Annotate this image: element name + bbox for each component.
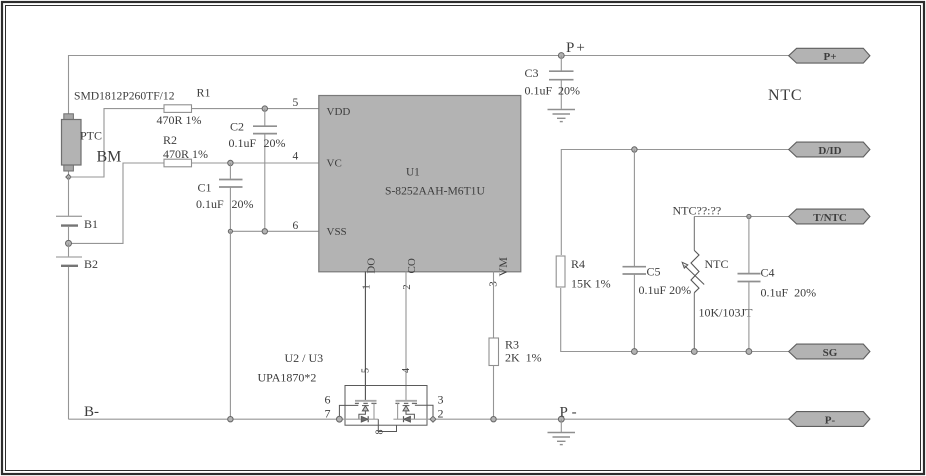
svg-text:1: 1: [361, 284, 373, 290]
svg-text:20%: 20%: [232, 197, 254, 211]
svg-text:P+: P+: [824, 51, 837, 63]
node: junction dot VSS/C1: [228, 229, 232, 233]
svg-text:R3: R3: [505, 338, 519, 352]
ground at C3: [548, 110, 576, 122]
wire: VSS pin 6 to C1/C2 verticals: [230, 230, 319, 232]
IC U1 S-8252AAH-M6T1U: [293, 96, 521, 290]
node: PTC bottom junction diamond: [66, 174, 71, 179]
wire: pin 8 hook below package: [378, 419, 396, 431]
svg-text:P -: P -: [560, 405, 577, 421]
svg-text:6: 6: [293, 220, 299, 232]
svg-text:SG: SG: [823, 347, 838, 359]
wire: VSS down to B- rail: [229, 231, 231, 419]
transistor Q left (U2): [355, 401, 377, 422]
wire: BM sense from B1/B2 node to R2 left: [71, 163, 164, 243]
capacitor C2 0.1uF 20%: [229, 109, 286, 232]
wire: C4 vertical from T/NTC: [748, 217, 750, 274]
svg-text:PTC: PTC: [80, 129, 102, 143]
svg-text:4: 4: [293, 151, 299, 163]
transistor Q right (U3): [395, 401, 417, 422]
node: B1/B2 mid junction diamond: [66, 240, 72, 246]
svg-text:S-8252AAH-M6T1U: S-8252AAH-M6T1U: [385, 184, 485, 197]
wire: pin 6 connection left: [339, 405, 358, 417]
dual MOSFET package U2/U3 box: [345, 386, 427, 426]
svg-text:5: 5: [293, 97, 299, 109]
svg-text:VM: VM: [496, 257, 510, 277]
svg-text:20%: 20%: [558, 83, 580, 97]
connector flag P+: [789, 48, 870, 63]
svg-text:C1: C1: [198, 180, 212, 194]
svg-text:B2: B2: [84, 257, 98, 271]
wire: DO pin to Q1 gate: [364, 272, 366, 402]
wire: B- rail: [69, 418, 340, 420]
capacitor C1 0.1uF 20%: [196, 163, 254, 231]
svg-text:4: 4: [401, 368, 412, 373]
wire: PTC bottom node to R1 left: [71, 109, 165, 177]
svg-text:15K 1%: 15K 1%: [571, 277, 611, 291]
wire: P+ top bus from PTC to P+ flag: [69, 56, 789, 115]
wire: R1 right to U1 VDD pin 5: [192, 108, 320, 110]
svg-text:R1: R1: [197, 86, 211, 100]
svg-text:3: 3: [438, 393, 444, 407]
wire: T/NTC net: [694, 216, 788, 218]
node: junction dot P- ground: [558, 416, 564, 422]
svg-text:NTC??:??: NTC??:??: [673, 204, 722, 218]
svg-text:SMD1812P260TF/12: SMD1812P260TF/12: [74, 89, 175, 102]
ground at P-: [548, 419, 576, 444]
wire: P- rail: [436, 418, 789, 420]
svg-text:0.1uF: 0.1uF: [229, 136, 257, 150]
svg-text:NTC: NTC: [768, 87, 802, 104]
PTC thermistor SMD1812P260TF/12: [62, 89, 175, 177]
svg-text:8: 8: [375, 430, 386, 435]
svg-text:U2 / U3: U2 / U3: [285, 351, 324, 365]
svg-text:7: 7: [325, 407, 331, 421]
svg-text:470R 1%: 470R 1%: [157, 113, 202, 127]
wire: R2 right to U1 VC pin 4: [192, 162, 320, 164]
svg-text:2: 2: [438, 407, 444, 421]
resistor R3 2K 1%: [489, 338, 542, 420]
thermistor NTC 10K/103JT: [682, 250, 753, 351]
svg-text:C4: C4: [761, 266, 775, 280]
node: junction dot VSS/C2: [262, 229, 267, 234]
wire: pin 3 connection right: [415, 405, 433, 417]
svg-text:C2: C2: [230, 119, 244, 133]
svg-text:VSS: VSS: [327, 226, 347, 238]
resistor R1 470R 1%: [157, 86, 211, 128]
svg-text:D/ID: D/ID: [818, 145, 841, 157]
svg-text:B1: B1: [84, 217, 98, 231]
svg-text:R2: R2: [163, 133, 177, 147]
wire: R4 bottom to SG rail: [561, 288, 789, 352]
svg-text:VDD: VDD: [327, 106, 351, 118]
svg-text:BM: BM: [97, 149, 122, 166]
capacitor C4 0.1uF 20%: [738, 266, 817, 352]
wire: D/ID net: [561, 150, 788, 256]
battery cell B1: [56, 177, 98, 243]
svg-text:P+: P+: [566, 40, 585, 56]
connector flag T/NTC: [789, 209, 870, 224]
svg-text:C5: C5: [647, 264, 661, 278]
svg-text:0.1uF 20%: 0.1uF 20%: [761, 286, 817, 300]
svg-text:DO: DO: [366, 258, 378, 274]
svg-text:C3: C3: [525, 66, 539, 80]
capacitor C5 0.1uF 20%: [623, 264, 692, 351]
wire: C5 vertical from D/ID: [633, 150, 635, 267]
svg-text:U1: U1: [406, 166, 420, 178]
node: junction dots on SG rail: [632, 349, 638, 355]
node: junction dot T/NTC / C4: [747, 214, 751, 218]
wire: source rail inside package: [339, 418, 361, 420]
connector flag D/ID: [789, 142, 870, 157]
connector flag P-: [789, 412, 870, 427]
svg-text:T/NTC: T/NTC: [813, 212, 847, 224]
svg-text:NTC: NTC: [705, 257, 729, 271]
battery cell B2: [56, 243, 98, 419]
svg-text:P-: P-: [825, 414, 836, 426]
wire: VM pin to R3: [493, 272, 495, 339]
node: P+ junction dot: [558, 53, 564, 59]
svg-text:0.1uF: 0.1uF: [525, 83, 553, 97]
resistor R2 470R 1%: [163, 133, 208, 167]
svg-text:B-: B-: [84, 404, 99, 420]
svg-text:CO: CO: [406, 258, 418, 273]
node: diamond at package pin 2: [430, 416, 436, 422]
svg-text:10K/103JT: 10K/103JT: [699, 306, 754, 320]
node: junction dot B- at package pin 7: [337, 416, 343, 422]
node: junction dot VC/C1: [228, 160, 233, 165]
svg-text:R4: R4: [571, 257, 585, 271]
connector flag SG: [789, 344, 870, 359]
node: junction dot B-/VSS vertical: [228, 417, 233, 422]
svg-text:2K 1%: 2K 1%: [505, 351, 542, 365]
svg-text:2: 2: [401, 284, 413, 290]
svg-text:470R 1%: 470R 1%: [163, 147, 208, 161]
svg-text:5: 5: [361, 368, 372, 373]
node: junction dot R3/P-: [491, 417, 496, 422]
svg-text:VC: VC: [327, 158, 342, 170]
svg-text:20%: 20%: [264, 136, 286, 150]
node: junction dot D/ID / C5: [632, 147, 637, 152]
svg-text:0.1uF 20%: 0.1uF 20%: [639, 283, 692, 297]
resistor R4 15K 1%: [556, 256, 610, 291]
capacitor C3 0.1uF 20%: [525, 56, 581, 109]
wire: CO pin to Q2 gate: [405, 272, 407, 401]
svg-text:6: 6: [325, 393, 331, 407]
node: junction dot VDD/C2: [262, 106, 267, 111]
svg-text:0.1uF: 0.1uF: [196, 197, 224, 211]
svg-text:UPA1870*2: UPA1870*2: [258, 371, 317, 385]
